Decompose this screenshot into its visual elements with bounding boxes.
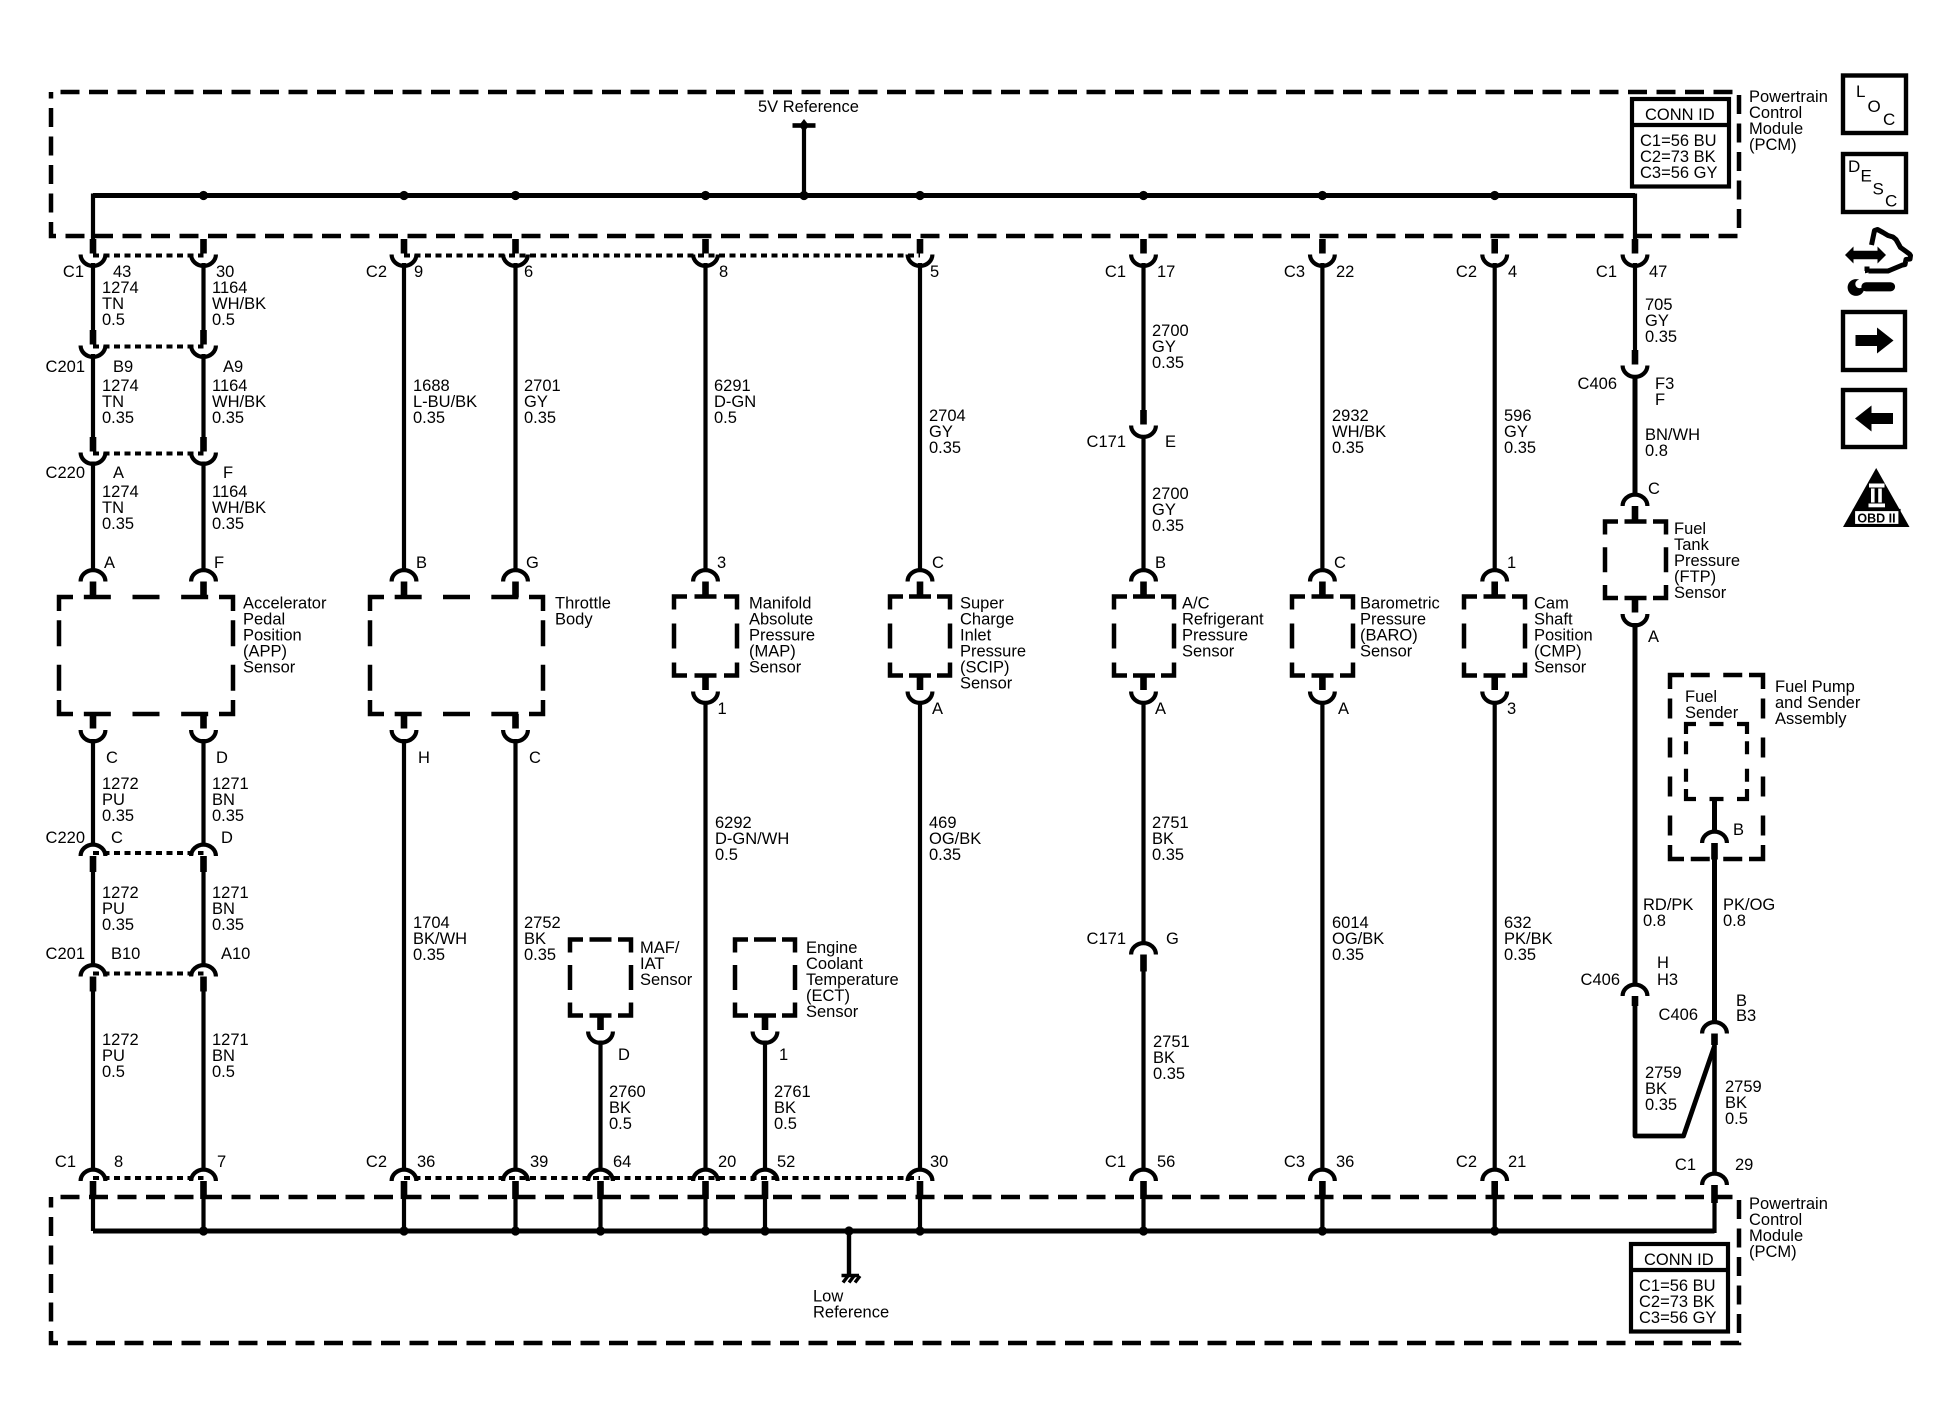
svg-text:C2: C2 <box>366 263 387 281</box>
svg-text:0.35: 0.35 <box>1504 439 1536 457</box>
svg-text:0.8: 0.8 <box>1645 442 1668 460</box>
svg-text:C406: C406 <box>1578 375 1617 393</box>
svg-text:0.35: 0.35 <box>212 916 244 934</box>
wire col3 seg2 <box>402 263 406 571</box>
svg-text:H3: H3 <box>1657 971 1678 989</box>
svg-text:OBD II: OBD II <box>1857 512 1895 526</box>
wire 1274 TN 0.35 seg2 <box>102 483 139 533</box>
svg-text:C171: C171 <box>1087 930 1126 948</box>
svg-text:D: D <box>221 829 233 847</box>
wire col3 seg3 <box>402 739 406 1171</box>
wire col10 seg5 <box>1141 972 1145 1171</box>
ECT bottom pin 1 connector <box>753 1016 778 1043</box>
label Throttle Body <box>555 595 611 629</box>
svg-text:21: 21 <box>1508 1153 1526 1171</box>
wire 1164 WH/BK 0.35 seg2 <box>212 483 266 533</box>
A/C sensor bottom pin A connector <box>1131 676 1156 703</box>
svg-text:Sender: Sender <box>1685 704 1739 722</box>
wire col6 seg3 <box>703 701 707 1171</box>
connector C406 pin F3 <box>1623 350 1648 377</box>
svg-text:1: 1 <box>779 1046 788 1064</box>
svg-text:C1: C1 <box>1105 1153 1126 1171</box>
svg-text:C1: C1 <box>55 1153 76 1171</box>
ground wire for Low Reference <box>847 1231 851 1277</box>
connector C201 pin B9 <box>81 330 106 357</box>
svg-text:Sensor: Sensor <box>1182 643 1235 661</box>
wire 1164 WH/BK 0.5 <box>212 279 266 329</box>
svg-text:0.8: 0.8 <box>1723 912 1746 930</box>
svg-text:B3: B3 <box>1736 1007 1756 1025</box>
svg-text:0.5: 0.5 <box>212 1063 235 1081</box>
wire col4 seg2 <box>513 263 517 571</box>
wire 2752 BK 0.35 <box>524 914 561 964</box>
svg-text:56: 56 <box>1157 1153 1175 1171</box>
svg-text:30: 30 <box>930 1153 948 1171</box>
connector C3 pin 22 <box>1310 239 1335 266</box>
svg-text:0.35: 0.35 <box>1152 517 1184 535</box>
wire 2701 GY 0.35 <box>524 377 561 427</box>
wire col12 seg2 <box>1493 263 1497 571</box>
svg-text:D: D <box>1848 157 1860 176</box>
wire col14 seg3 <box>1712 1045 1717 1174</box>
label Fuel Pump and Sender Assembly <box>1775 678 1861 728</box>
svg-text:36: 36 <box>1336 1153 1354 1171</box>
CONN ID table top <box>1632 99 1729 187</box>
svg-text:D: D <box>216 749 228 767</box>
connector C1 pin 30 <box>191 239 216 266</box>
wire col1 into bottom bus <box>91 1199 95 1231</box>
label SCIP sensor <box>960 595 1026 693</box>
connector C406 pin B3 <box>1702 1022 1727 1045</box>
svg-text:C3=56 GY: C3=56 GY <box>1640 164 1718 182</box>
svg-text:0.35: 0.35 <box>1645 1096 1677 1114</box>
svg-text:C3: C3 <box>1284 263 1305 281</box>
wire col1 seg2 <box>91 263 95 331</box>
MAP sensor top pin 3 connector <box>693 570 718 596</box>
svg-text:C220: C220 <box>46 464 85 482</box>
FTP sensor bottom pin A connector <box>1623 598 1648 625</box>
SCIP sensor bottom pin A connector <box>908 676 933 703</box>
connector C1 pin 8 bottom <box>81 1170 106 1199</box>
wire col10 seg2 <box>1141 263 1145 411</box>
CONN ID table bottom <box>1631 1244 1728 1332</box>
wire col11 seg2 <box>1320 263 1324 571</box>
connector C2 pin 64 bottom <box>588 1170 613 1199</box>
wire 6014 OG/BK 0.35 <box>1332 914 1384 964</box>
CMP sensor box <box>1464 597 1525 676</box>
wire 2700 GY 0.35 seg2 <box>1152 485 1189 535</box>
svg-text:0.5: 0.5 <box>212 311 235 329</box>
svg-text:0.35: 0.35 <box>1332 439 1364 457</box>
wire 2751 BK 0.35 seg2 <box>1153 1033 1190 1083</box>
wire col13 seg2 <box>1633 263 1637 351</box>
wire 2932 WH/BK 0.35 <box>1332 407 1386 457</box>
connector C3 pin 36 bottom <box>1310 1170 1335 1199</box>
svg-text:29: 29 <box>1735 1156 1753 1174</box>
wire 1164 WH/BK 0.35 <box>212 377 266 427</box>
svg-text:C1: C1 <box>1596 263 1617 281</box>
svg-text:A9: A9 <box>223 358 243 376</box>
wire col13 bus corner down <box>1633 194 1637 241</box>
wire col14 into bottom bus corner <box>1712 1203 1716 1233</box>
svg-text:(PCM): (PCM) <box>1749 136 1797 154</box>
connector C171 pin G <box>1131 943 1156 971</box>
label CMP sensor <box>1534 595 1593 677</box>
svg-text:0.35: 0.35 <box>524 946 556 964</box>
svg-text:Sensor: Sensor <box>243 659 296 677</box>
svg-text:Sensor: Sensor <box>1674 584 1727 602</box>
svg-text:17: 17 <box>1157 263 1175 281</box>
dotted line C220 row <box>93 452 204 456</box>
dotted line lower C220 row <box>93 851 204 855</box>
wire col11 seg3 <box>1320 701 1324 1171</box>
svg-text:B10: B10 <box>111 945 140 963</box>
svg-text:A: A <box>1155 700 1166 718</box>
svg-text:0.35: 0.35 <box>413 946 445 964</box>
label A/C refrigerant pressure sensor <box>1182 595 1264 661</box>
icon LOC box <box>1843 76 1906 134</box>
icon OBD II triangle <box>1843 468 1910 527</box>
svg-text:0.35: 0.35 <box>102 409 134 427</box>
5V Reference supply stub <box>793 119 816 196</box>
Throttle Body top pin G connector <box>503 570 528 597</box>
wire col4 seg3 <box>513 739 517 1171</box>
FTP sensor box <box>1605 522 1666 599</box>
connector C2 pin 4 <box>1482 239 1507 266</box>
svg-text:C201: C201 <box>46 945 85 963</box>
junction dots on low reference bus <box>199 1226 208 1235</box>
Low Reference bus wire inside bottom PCM <box>93 1229 1715 1234</box>
wire 596 GY 0.35 <box>1504 407 1536 457</box>
svg-text:Sensor: Sensor <box>1534 659 1587 677</box>
wire BN/WH 0.8 <box>1645 426 1700 460</box>
wire col2 seg2 <box>201 263 205 331</box>
svg-text:E: E <box>1861 167 1872 186</box>
wire 2700 GY 0.35 <box>1152 322 1189 372</box>
svg-text:39: 39 <box>530 1153 548 1171</box>
svg-text:C2: C2 <box>1456 263 1477 281</box>
wire col1 seg4 <box>91 462 95 572</box>
svg-text:0.35: 0.35 <box>413 409 445 427</box>
wire 469 OG/BK 0.35 <box>929 814 981 864</box>
wire 1272 PU 0.35 <box>102 775 139 825</box>
wire fuel sender to pin B <box>1712 799 1717 833</box>
wire col13 seg3 <box>1633 377 1638 496</box>
svg-text:1: 1 <box>718 700 727 718</box>
svg-text:B: B <box>1155 554 1166 572</box>
wire col14 seg2 <box>1712 860 1717 1023</box>
svg-text:0.5: 0.5 <box>102 311 125 329</box>
APP sensor top pin A connector <box>81 570 106 597</box>
svg-text:Sensor: Sensor <box>960 675 1013 693</box>
wire col5 <box>598 1041 602 1171</box>
A/C sensor top pin B connector <box>1131 570 1156 596</box>
svg-text:3: 3 <box>1507 700 1516 718</box>
dotted line lower C201 row <box>93 972 204 976</box>
wire PK/OG 0.8 <box>1723 896 1775 930</box>
Fuel Pump and Sender Assembly box <box>1670 675 1763 859</box>
A/C refrigerant pressure sensor box <box>1114 597 1174 676</box>
svg-text:0.5: 0.5 <box>714 409 737 427</box>
label MAF/IAT sensor <box>640 939 693 989</box>
svg-text:E: E <box>1165 433 1176 451</box>
wire col7 <box>763 1041 767 1171</box>
svg-text:0.35: 0.35 <box>102 515 134 533</box>
BARO sensor box <box>1292 597 1353 676</box>
svg-text:0.35: 0.35 <box>1152 354 1184 372</box>
svg-text:6: 6 <box>524 263 533 281</box>
5V reference bus wire inside PCM <box>93 193 1635 198</box>
APP sensor top pin F connector <box>191 570 216 597</box>
wire 1272 PU 0.35 seg2 <box>102 884 139 934</box>
wire col10 into bottom bus <box>1141 1199 1145 1231</box>
dotted line C1 row bottom pins 8-7 <box>93 1176 204 1180</box>
wire 2761 BK 0.5 <box>774 1083 811 1133</box>
PCM bottom dashed box (Powertrain Control Module) <box>51 1197 1739 1343</box>
wire col11 into bottom bus <box>1320 1199 1324 1231</box>
svg-text:C: C <box>111 829 123 847</box>
wire col12 seg3 <box>1493 701 1497 1171</box>
svg-text:0.5: 0.5 <box>102 1063 125 1081</box>
icon connector tool (wrench) <box>1848 273 1891 296</box>
MAP sensor bottom pin 1 connector <box>693 676 718 703</box>
FTP sensor top pin C connector <box>1623 495 1648 522</box>
svg-text:0.5: 0.5 <box>609 1115 632 1133</box>
wire 1704 BK/WH 0.35 <box>413 914 467 964</box>
connector C220 pin A <box>81 437 106 464</box>
svg-text:H: H <box>418 749 430 767</box>
svg-text:C: C <box>529 749 541 767</box>
connector C2 pin 5 <box>908 239 933 266</box>
connector C2 pin 9 <box>392 239 417 266</box>
ground symbol <box>842 1276 861 1283</box>
svg-text:A: A <box>104 554 115 572</box>
SCIP sensor top pin C connector <box>908 570 933 596</box>
Throttle Body bottom pin H connector <box>392 714 417 741</box>
wire col9 seg2 <box>918 263 922 571</box>
svg-text:8: 8 <box>114 1153 123 1171</box>
svg-text:0.5: 0.5 <box>774 1115 797 1133</box>
svg-text:C3: C3 <box>1284 1153 1305 1171</box>
svg-text:0.35: 0.35 <box>212 807 244 825</box>
wire col10 seg3 <box>1141 436 1145 572</box>
wire col3 into bottom bus <box>402 1199 406 1231</box>
svg-text:0.35: 0.35 <box>1332 946 1364 964</box>
svg-text:L: L <box>1856 82 1865 101</box>
svg-text:Sensor: Sensor <box>640 971 693 989</box>
svg-text:A: A <box>1648 628 1659 646</box>
svg-text:F: F <box>214 554 224 572</box>
dotted line C2 row bottom pins 36-39-64-20-52-30 <box>404 1176 920 1180</box>
svg-text:0.35: 0.35 <box>212 409 244 427</box>
wire 1271 BN 0.5 <box>212 1031 249 1081</box>
svg-text:C: C <box>106 749 118 767</box>
svg-text:8: 8 <box>719 263 728 281</box>
wire col10 seg4 <box>1141 701 1145 944</box>
wire col2 seg7 <box>201 992 205 1171</box>
wire col7 into bottom bus <box>763 1199 767 1231</box>
connector lower C220 pin D <box>191 845 216 872</box>
icon connector tool (double arrow) <box>1845 247 1886 264</box>
PCM top dashed box (Powertrain Control Module) <box>51 92 1739 236</box>
svg-text:0.5: 0.5 <box>1725 1110 1748 1128</box>
connector C1 pin 29 bottom <box>1702 1174 1727 1203</box>
svg-text:B9: B9 <box>113 358 133 376</box>
svg-text:5: 5 <box>930 263 939 281</box>
icon connector tool (connector outline) <box>1865 230 1911 272</box>
wire col1 seg5 <box>91 739 95 846</box>
wire col1 seg6 <box>91 872 95 966</box>
svg-text:A: A <box>932 700 943 718</box>
svg-text:22: 22 <box>1336 263 1354 281</box>
SCIP sensor box <box>890 597 950 676</box>
svg-text:5V Reference: 5V Reference <box>758 98 859 116</box>
svg-text:0.35: 0.35 <box>929 846 961 864</box>
svg-text:C2: C2 <box>366 1153 387 1171</box>
icon DESC box <box>1843 154 1906 212</box>
svg-text:A: A <box>113 464 124 482</box>
svg-text:F: F <box>1655 391 1665 409</box>
svg-text:Body: Body <box>555 611 593 629</box>
svg-text:7: 7 <box>217 1153 226 1171</box>
Throttle Body box <box>370 597 543 714</box>
connector C1 pin 43 <box>81 239 106 266</box>
Throttle Body bottom pin C connector <box>503 714 528 741</box>
connector lower C220 pin C <box>81 845 106 872</box>
CMP sensor bottom pin 3 connector <box>1482 676 1507 703</box>
label Fuel Sender <box>1685 688 1739 722</box>
connector C2 pin 6 <box>503 239 528 266</box>
svg-text:C: C <box>1334 554 1346 572</box>
svg-text:52: 52 <box>777 1153 795 1171</box>
connector C2 pin 36 bottom <box>392 1170 417 1199</box>
svg-text:CONN ID: CONN ID <box>1645 106 1715 124</box>
connector C406 pin H <box>1623 985 1648 1006</box>
svg-text:Assembly: Assembly <box>1775 710 1847 728</box>
wire 2759 BK 0.5 <box>1725 1078 1762 1128</box>
svg-text:C171: C171 <box>1087 433 1126 451</box>
svg-text:C406: C406 <box>1659 1006 1698 1024</box>
svg-text:Sensor: Sensor <box>806 1003 859 1021</box>
APP sensor bottom pin D connector <box>191 714 216 741</box>
label ECT sensor <box>806 939 899 1021</box>
svg-text:Sensor: Sensor <box>1360 643 1413 661</box>
connector C2 pin 30 bottom <box>908 1170 933 1199</box>
svg-text:(PCM): (PCM) <box>1749 1243 1797 1261</box>
svg-text:0.35: 0.35 <box>1504 946 1536 964</box>
wire col13 seg5 with corner and diagonal to B3 <box>1635 1006 1715 1136</box>
wire 1688 L-BU/BK 0.35 <box>413 377 477 427</box>
svg-text:Sensor: Sensor <box>749 659 802 677</box>
connector C201 pin A9 <box>191 330 216 357</box>
svg-text:Reference: Reference <box>813 1304 889 1322</box>
svg-text:C3=56 GY: C3=56 GY <box>1639 1309 1717 1327</box>
label APP sensor <box>243 595 327 677</box>
connector C171 pin E <box>1131 410 1156 437</box>
svg-text:H: H <box>1657 954 1669 972</box>
wire col6 into bottom bus <box>703 1199 707 1231</box>
connector C1 pin 17 <box>1131 239 1156 266</box>
label Low Reference <box>813 1288 889 1322</box>
svg-text:G: G <box>526 554 539 572</box>
wire col1 seg7 <box>91 992 95 1171</box>
BARO sensor top pin C connector <box>1310 570 1335 596</box>
Fuel Sender inner box <box>1686 724 1747 799</box>
wire col9 into bottom bus <box>918 1199 922 1231</box>
wire col13 seg4 <box>1633 623 1638 985</box>
connector C2 pin 20 bottom <box>693 1170 718 1199</box>
svg-text:C220: C220 <box>46 829 85 847</box>
APP sensor bottom pin C connector <box>81 714 106 741</box>
dotted line C2 row top pins 9-6-8-5 <box>404 254 920 258</box>
wire col2 seg5 <box>201 739 205 846</box>
svg-text:C201: C201 <box>46 358 85 376</box>
svg-text:C2: C2 <box>1456 1153 1477 1171</box>
svg-text:0.35: 0.35 <box>929 439 961 457</box>
icon back arrow box <box>1843 390 1905 447</box>
BARO sensor bottom pin A connector <box>1310 676 1335 703</box>
wire 6292 D-GN/WH 0.5 <box>715 814 789 864</box>
connector lower C201 pin B10 <box>81 965 106 991</box>
wire col2 seg4 <box>201 462 205 572</box>
svg-text:47: 47 <box>1649 263 1667 281</box>
svg-text:36: 36 <box>417 1153 435 1171</box>
wire 1271 BN 0.35 seg2 <box>212 884 249 934</box>
svg-text:C1: C1 <box>1675 1156 1696 1174</box>
svg-text:0.35: 0.35 <box>102 916 134 934</box>
wire 6291 D-GN 0.5 <box>714 377 756 427</box>
dotted line C1 row top between pins 43 and 30 <box>93 254 204 258</box>
svg-text:G: G <box>1166 930 1179 948</box>
label PCM bottom right <box>1749 1195 1828 1261</box>
svg-text:0.5: 0.5 <box>715 846 738 864</box>
connector C2 pin 21 bottom <box>1482 1170 1507 1199</box>
wire col4 into bottom bus <box>513 1199 517 1231</box>
label MAP sensor <box>749 595 815 677</box>
svg-text:F: F <box>223 464 233 482</box>
label BARO sensor <box>1360 595 1440 661</box>
MAF/IAT sensor box <box>570 940 631 1016</box>
svg-text:S: S <box>1873 180 1884 199</box>
connector C2 pin 39 bottom <box>503 1170 528 1199</box>
svg-text:C1: C1 <box>63 263 84 281</box>
connector C1 pin 56 bottom <box>1131 1170 1156 1199</box>
svg-text:4: 4 <box>1508 263 1517 281</box>
icon forward arrow box <box>1843 312 1905 370</box>
svg-text:B: B <box>416 554 427 572</box>
svg-text:CONN ID: CONN ID <box>1644 1251 1714 1269</box>
svg-text:A10: A10 <box>221 945 250 963</box>
wire col9 seg3 <box>918 701 922 1171</box>
svg-text:C406: C406 <box>1581 971 1620 989</box>
wire RD/PK 0.8 <box>1643 896 1693 930</box>
wire col5 into bottom bus <box>598 1199 602 1231</box>
connector C1 pin 7 bottom <box>191 1170 216 1199</box>
wire 2760 BK 0.5 <box>609 1083 646 1133</box>
connector C2 pin 52 bottom <box>753 1170 778 1199</box>
label FTP sensor <box>1674 520 1740 602</box>
svg-text:64: 64 <box>613 1153 631 1171</box>
MAP sensor box <box>674 597 737 676</box>
wire 1274 TN 0.5 <box>102 279 139 329</box>
svg-text:20: 20 <box>718 1153 736 1171</box>
svg-text:C: C <box>1885 192 1897 211</box>
wire 2704 GY 0.35 <box>929 407 966 457</box>
APP sensor box <box>59 597 233 714</box>
dotted line C201 row <box>93 345 204 349</box>
wire 1274 TN 0.35 <box>102 377 139 427</box>
wire col2 into bottom bus <box>201 1199 205 1231</box>
